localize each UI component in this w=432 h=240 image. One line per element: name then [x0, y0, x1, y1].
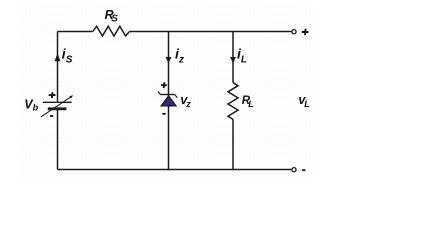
wire zener branch	[168, 32, 170, 170]
wire top left segment	[58, 31, 93, 33]
resistor RL	[228, 83, 238, 120]
zener triangle anode	[161, 96, 176, 106]
wire RL branch upper	[232, 32, 234, 83]
current arrow iz	[166, 57, 172, 63]
svg-text:S: S	[111, 14, 118, 25]
wire RL branch lower	[232, 119, 234, 169]
zener plus mark	[161, 82, 167, 88]
svg-text:z: z	[185, 99, 191, 109]
svg-text:b: b	[33, 103, 39, 113]
resistor RS	[93, 26, 130, 36]
battery plus mark	[49, 92, 56, 98]
battery Vb variable source	[41, 92, 73, 117]
battery plate long positive	[43, 101, 72, 103]
zener bar left wing	[158, 91, 160, 94]
svg-text:S: S	[66, 55, 73, 66]
zener minus mark	[162, 113, 165, 115]
wire left upper segment	[57, 32, 59, 102]
battery plate short negative	[48, 107, 67, 110]
svg-text:L: L	[248, 99, 254, 109]
variable arrow through battery	[41, 97, 71, 117]
label RS	[105, 8, 119, 25]
label vL	[298, 93, 309, 109]
label iz	[175, 46, 184, 66]
svg-text:L: L	[241, 55, 247, 66]
svg-text:L: L	[304, 99, 310, 109]
label RL	[242, 95, 254, 109]
wire left lower segment	[57, 110, 59, 170]
current arrow iL	[230, 57, 236, 63]
label - (output minus)	[302, 169, 305, 171]
label Vb	[24, 98, 38, 113]
current arrow iS	[55, 53, 61, 61]
terminal - (open circle)	[292, 168, 296, 172]
label iS	[62, 46, 73, 66]
svg-text:z: z	[178, 54, 184, 65]
label vz	[180, 93, 191, 109]
terminal + (open circle)	[292, 30, 296, 34]
zener bar right wing	[175, 95, 178, 98]
wire bottom segment	[58, 169, 292, 171]
wire top middle segment	[129, 31, 291, 33]
label + (output plus)	[302, 29, 309, 36]
battery minus mark	[50, 115, 53, 117]
label iL	[237, 46, 247, 66]
zener diode vz	[158, 82, 177, 114]
zener cathode bar	[160, 94, 175, 96]
